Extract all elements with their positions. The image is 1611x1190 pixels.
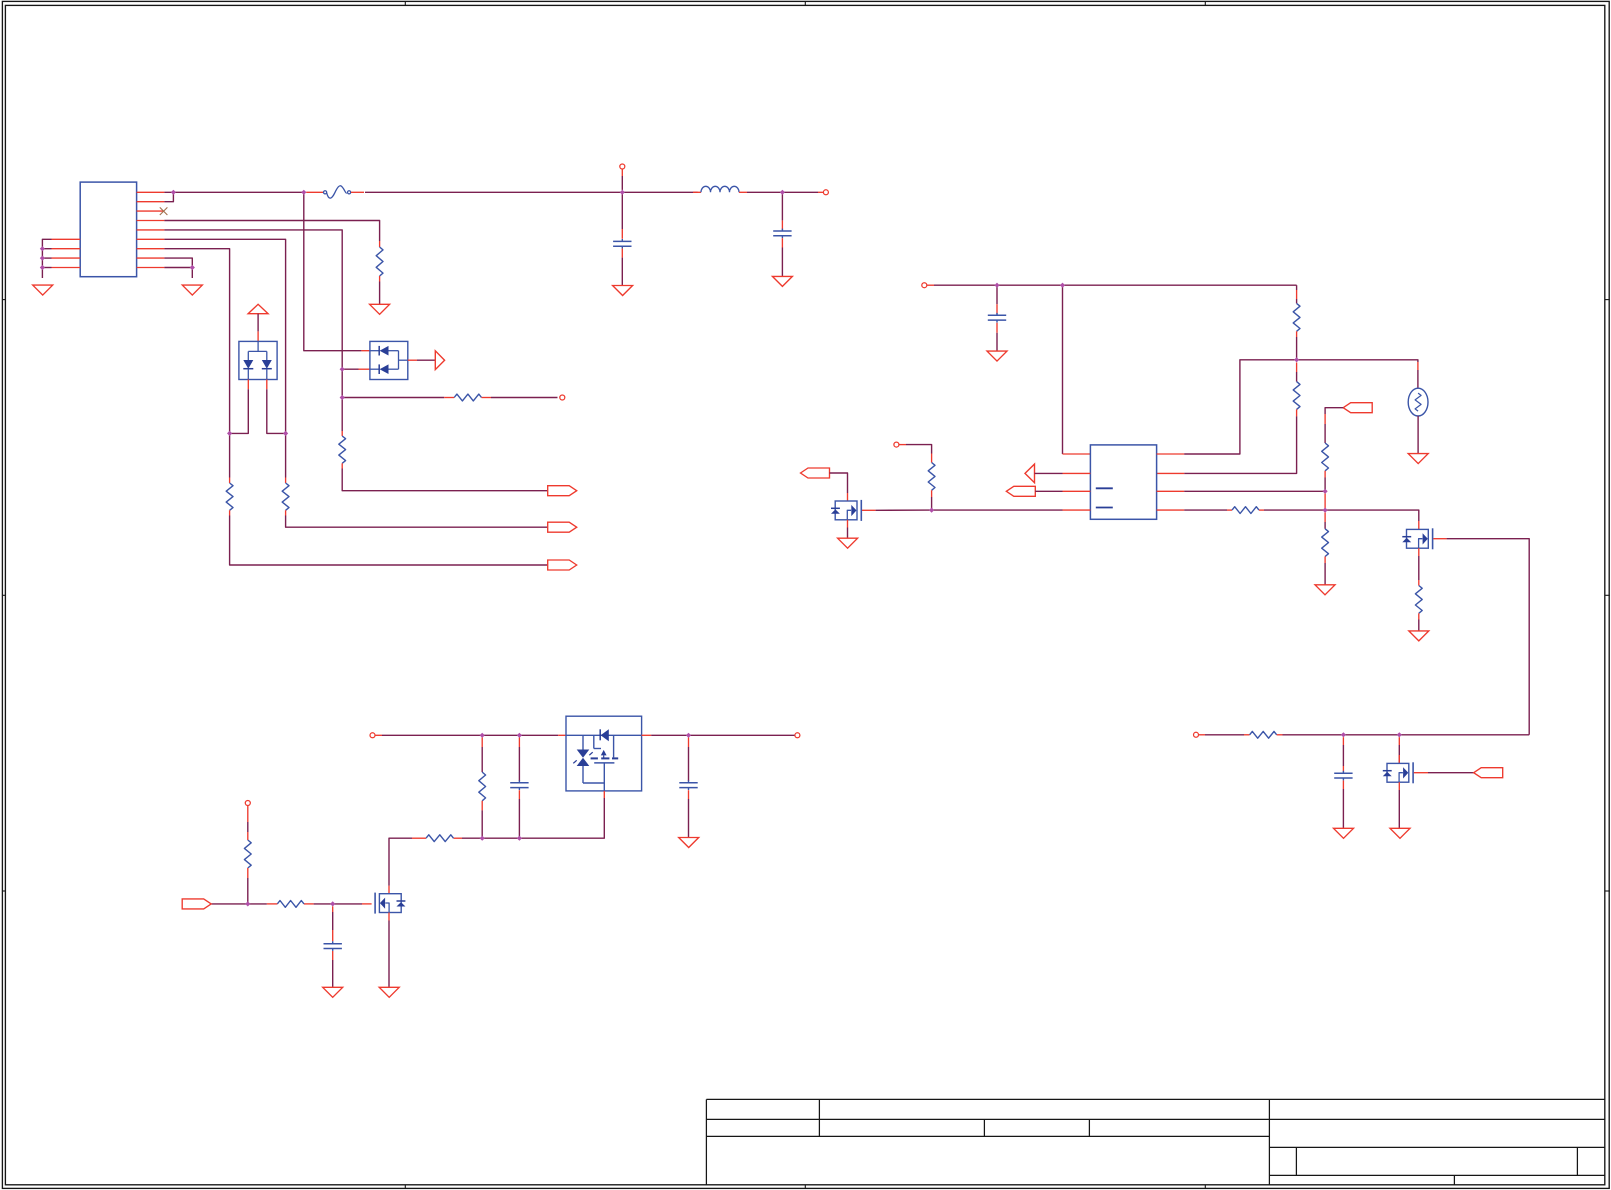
red stub R17 left <box>1244 734 1250 736</box>
ground GND2 (J1 pins 8-9) <box>182 285 202 295</box>
connector J1 <box>80 182 136 277</box>
offpage tag T8 <box>1474 768 1503 778</box>
junction node Q <box>1341 732 1346 737</box>
offpage tag T2 <box>548 522 577 532</box>
red stub R16 bottom <box>247 868 249 878</box>
wire A2 to U1 <box>1035 472 1063 474</box>
wire to R6 <box>1296 299 1298 303</box>
red stub C6 mid <box>332 930 334 941</box>
wire node B to port P1 <box>621 176 623 190</box>
red stub R7 top <box>1296 363 1298 373</box>
junction pin6/diode D1b <box>283 431 288 436</box>
red stub R12 bottom <box>1418 613 1420 619</box>
wire to R7 <box>1296 372 1298 382</box>
wire R3 to tag row1 <box>342 469 548 491</box>
input arrow A2 <box>1025 464 1035 483</box>
resistor R8 <box>928 463 935 491</box>
red stub Q3 right <box>642 734 652 736</box>
wire pin6 to R4 <box>285 433 287 477</box>
red stub R10 left <box>1227 509 1232 511</box>
red stub L1 left <box>693 191 701 193</box>
wire Q4 gate to node O <box>333 903 362 905</box>
red stub R11 bottom <box>1324 557 1326 564</box>
resistor R10 <box>1232 507 1259 514</box>
red stub R13 bottom <box>481 801 483 811</box>
wire node F to lamp <box>1297 360 1418 362</box>
red stub Q3 left <box>558 734 566 736</box>
red stub R14 right <box>454 837 463 839</box>
IC U1 <box>1090 445 1156 519</box>
junction node R <box>1397 732 1402 737</box>
red stub port P1 <box>621 169 623 176</box>
junction node H <box>1323 489 1328 494</box>
junction pin7/diode D1a <box>227 431 232 436</box>
red stub R11 top <box>1324 513 1326 523</box>
wire to R9 <box>1324 424 1326 443</box>
port P7 <box>795 733 800 738</box>
ground GND13 (C6) <box>323 987 343 997</box>
wire R11 to ground <box>1324 563 1326 585</box>
red stub R6 top <box>1296 290 1298 299</box>
resistor R4 <box>282 483 289 510</box>
wire J1 pin6 column <box>164 239 285 433</box>
capacitor C6 <box>324 941 342 951</box>
wire pin7 to R5 <box>229 433 231 477</box>
capacitor C4 <box>510 780 528 790</box>
port P5 <box>894 442 899 447</box>
red stub R13 top <box>481 738 483 748</box>
fuse F1 <box>324 186 351 198</box>
wire pin5 to R3 <box>341 398 343 432</box>
wire pin5 to D2 lower pin <box>342 368 358 370</box>
red stub Q1 gate <box>862 509 876 511</box>
wire P5 to R8 <box>906 445 932 454</box>
wire lamp to ground <box>1417 416 1419 454</box>
red stub R7 bottom <box>1296 409 1298 416</box>
red stub C4 top <box>518 738 520 748</box>
wire node O to R15 <box>314 903 333 905</box>
wire R1 to ground <box>379 282 381 305</box>
red stub R8 top <box>931 454 933 463</box>
wire U1-R1 to node F <box>1184 360 1296 454</box>
wire to R11 <box>1324 522 1326 529</box>
wire R15 to node P <box>248 903 267 905</box>
wire R6 to node F <box>1296 337 1298 360</box>
wire J1 pin4 to R1 <box>164 221 379 242</box>
ground GND11 (C5) <box>679 838 699 848</box>
dual diode D2 <box>370 341 408 379</box>
red stub Q2 gate <box>1433 538 1446 540</box>
wire C5 to ground <box>688 799 690 837</box>
wire T6 to R9 <box>1325 408 1343 414</box>
wire VIN rail to fuse <box>164 191 303 193</box>
red stub Q5 gate <box>1414 772 1428 774</box>
red stub fuse left <box>306 191 323 193</box>
connector J1 pin stubs <box>52 192 165 267</box>
wire R4 to tag row2 <box>286 516 548 528</box>
offpage tag T5 <box>801 468 830 478</box>
red stub C1 top <box>621 229 623 239</box>
red stub R17 right <box>1277 734 1283 736</box>
ground GND12 (Q4) <box>379 987 399 997</box>
wire J1 pin7 column <box>164 249 229 434</box>
wire C6 to ground <box>332 960 334 987</box>
red stub Q4 gate <box>362 903 372 905</box>
capacitor C3 <box>988 313 1006 333</box>
red stub R15 left <box>267 903 278 905</box>
red stub R1 bottom <box>379 276 381 282</box>
red stub R5 bottom <box>229 510 231 515</box>
resistor R15 <box>277 901 304 908</box>
red stub P4 <box>927 284 934 286</box>
wire R12 to ground <box>1418 620 1420 631</box>
wire D1a to pin7 column <box>230 389 249 433</box>
red stub Q3 bottom <box>603 791 605 798</box>
wire J1 pin L2 seg <box>42 248 51 250</box>
wire R14 to Q4 drain <box>389 838 412 886</box>
wire node K to C4 <box>518 747 520 781</box>
wire Q5 source to ground <box>1398 790 1400 828</box>
wire T5 to Q1 drain <box>830 473 848 493</box>
red stub R2 right <box>482 397 492 399</box>
red stub lamp top <box>1417 362 1419 370</box>
wire J1 pin9 to ground <box>164 268 192 279</box>
red stub C1 bottom <box>621 249 623 258</box>
resistor R13 <box>479 772 486 801</box>
wire J1 pin5 column <box>164 230 342 369</box>
red stub Q4 drain <box>388 886 390 894</box>
red stub C7 top <box>1342 737 1344 745</box>
red stub U1-R3 <box>1157 490 1185 492</box>
no-connect X on J1 pin 3 <box>160 207 168 215</box>
transistor Q2 <box>1402 528 1432 549</box>
wire P8 to R16 <box>247 822 249 832</box>
ground GND5 (R1) <box>370 304 390 314</box>
wire R13 to lower rail <box>481 810 483 838</box>
wire node R to Q2 gate line <box>1399 734 1529 736</box>
wire mid rail <box>382 734 558 736</box>
red stub C6 top <box>332 906 334 912</box>
junction node J <box>480 733 485 738</box>
wire lower rail <box>482 837 519 839</box>
wire R5 to tag row3 <box>230 516 548 566</box>
resistor R9 <box>1322 443 1329 471</box>
red stub port P2 <box>818 191 823 193</box>
red stub R8 bottom <box>931 490 933 497</box>
red stub U1-L4 <box>1063 509 1091 511</box>
ground GND15 (Q5) <box>1390 828 1410 838</box>
wire J1 pin L3 seg <box>42 257 51 259</box>
red stub C5 top <box>688 738 690 748</box>
junction node I <box>1323 508 1328 513</box>
capacitor C2 <box>773 229 791 239</box>
wire C1 to ground <box>621 258 623 286</box>
resistor R5 <box>226 483 233 510</box>
red stub C5 bottom <box>688 790 690 799</box>
red stub U1-L2 <box>1063 472 1091 474</box>
transistor Q5 <box>1383 762 1413 783</box>
red stub C7 mid <box>1342 766 1344 772</box>
junction node M <box>480 836 485 841</box>
wire J1 pin2 jog <box>164 192 173 201</box>
capacitor C5 <box>679 780 697 790</box>
wire node E to U1 pin1 <box>1062 285 1064 454</box>
wire node C to port P2 <box>782 191 818 193</box>
junction J1-L4 <box>40 265 45 270</box>
ground GND3 (C1) <box>613 286 633 296</box>
ground GND7 (lamp) <box>1408 454 1428 464</box>
dual diode D1 <box>239 341 277 379</box>
port P6 <box>370 733 375 738</box>
wire pin5 row to R2 <box>342 397 444 399</box>
red stub Q5 drain2 <box>1398 755 1400 763</box>
wire J1 pin L4 seg <box>42 267 51 269</box>
wire C3 to ground <box>996 333 998 351</box>
junction node N <box>517 836 522 841</box>
junction pin5/R2 row <box>340 395 345 400</box>
red stub C6 bottom <box>332 951 334 960</box>
wire Q3 to node L <box>651 734 797 736</box>
red stub Q2 drain <box>1418 521 1420 529</box>
red stub R16 top <box>247 832 249 840</box>
wire R8 to node G <box>931 497 933 510</box>
red stub U1-R4 <box>1157 509 1185 511</box>
ground GND8 (Q1) <box>838 538 858 548</box>
red stub R5 top <box>229 478 231 484</box>
port P8 <box>245 801 250 806</box>
resistor R17 <box>1250 731 1277 738</box>
wire R7 to U1 pin R2 <box>1184 416 1296 473</box>
wire R10 to node I <box>1264 509 1325 511</box>
wire VCC to D1 <box>257 314 259 332</box>
junction J1-L3 <box>40 256 45 261</box>
wire node R to Q5 <box>1398 745 1400 763</box>
wire node P to tag <box>211 903 248 905</box>
wire node C to C2 <box>781 192 783 220</box>
red stub R9 top <box>1324 414 1326 424</box>
red stub C2 top <box>781 220 783 229</box>
wire C4 to lower rail <box>518 799 520 838</box>
transistor Q4 <box>375 893 405 914</box>
wire node I to Q2 drain <box>1325 510 1419 521</box>
red stub U1-R1 <box>1157 453 1185 455</box>
junction pin5/diode D2 <box>340 367 345 372</box>
red stub Q4 source <box>388 913 390 921</box>
red stub D2 right <box>408 359 417 361</box>
red stub D2 top-left <box>361 350 370 352</box>
wire D1b to pin6 column <box>267 389 286 433</box>
red stub D1 bottom right <box>266 380 268 390</box>
junction node G <box>929 508 934 513</box>
red stub D1 top <box>257 331 259 341</box>
red stub R3 bottom <box>341 463 343 468</box>
red stub C4 bottom <box>518 790 520 799</box>
wire L1 to node C <box>747 191 782 193</box>
wire Q3 source down <box>519 798 604 838</box>
wire U1-R4 to R10 <box>1184 509 1227 511</box>
resistor R3 <box>339 436 346 463</box>
inductor L1 <box>701 186 739 192</box>
port P1 <box>620 164 625 169</box>
red stub Q1 source <box>847 520 849 528</box>
wire Q1 source to ground <box>847 528 849 539</box>
wire Q5 gate to tag <box>1428 772 1474 774</box>
junction node F <box>1294 357 1299 362</box>
wire R2 to port P3 <box>491 397 558 399</box>
junction node D <box>994 283 999 288</box>
junction node K <box>517 733 522 738</box>
offpage tag T6 <box>1343 403 1372 413</box>
wire C7 to ground <box>1342 789 1344 828</box>
red stub C7 bottom <box>1342 781 1344 790</box>
red stub R2 left <box>444 397 454 399</box>
wire to lamp <box>1417 370 1419 388</box>
wire R9 to node H <box>1324 478 1326 492</box>
red stub R12 top <box>1418 580 1420 586</box>
wire R16 to node P <box>247 878 249 904</box>
red stub P8 <box>247 806 249 823</box>
port P4 <box>922 283 927 288</box>
red stub P9 <box>1199 734 1206 736</box>
resistor R7 <box>1293 382 1300 410</box>
wire node Q to node R <box>1343 734 1399 736</box>
junction J1 pin8/9 <box>190 265 195 270</box>
lamp DS1 <box>1408 388 1428 416</box>
red stub node H to node I <box>1324 494 1326 509</box>
red stub R10 right <box>1259 509 1264 511</box>
junction VIN node A <box>301 190 306 195</box>
resistor R14 <box>426 835 454 842</box>
resistor R1 <box>376 247 383 276</box>
offpage tag T1 <box>548 486 577 496</box>
red stub L1 right <box>739 191 747 193</box>
wire Q1 gate to node G <box>876 509 932 511</box>
wire D2 to arrow <box>417 359 435 361</box>
wire P9 to R17 <box>1205 734 1244 736</box>
capacitor C7 <box>1334 771 1352 781</box>
red stub R4 bottom <box>285 510 287 515</box>
ground GND10 (R12) <box>1409 631 1429 641</box>
wire C2 to ground <box>781 248 783 277</box>
junction node L <box>686 733 691 738</box>
ground GND1 (J1 left) <box>33 285 53 295</box>
junction node E <box>1060 283 1065 288</box>
red stub R1 top <box>379 241 381 247</box>
power mosfet pack Q3 <box>566 716 642 791</box>
junction node C <box>780 190 785 195</box>
ground GND14 (C7) <box>1334 828 1354 838</box>
wire node O to C6 <box>332 912 334 930</box>
wire node J to R13 <box>481 747 483 772</box>
port P2 <box>823 190 828 195</box>
red stub C3 top <box>996 304 998 314</box>
offpage tag T3 <box>548 560 577 570</box>
resistor R6 <box>1293 303 1300 331</box>
wire R17 to node Q <box>1283 734 1344 736</box>
red stub Q1 drain <box>847 493 849 501</box>
resistor R12 <box>1415 586 1422 614</box>
wire node A to D2 <box>304 192 362 350</box>
red stub D2 bottom-left <box>359 368 370 370</box>
junction node B <box>620 190 625 195</box>
wire T4 to U1 <box>1035 490 1062 492</box>
offpage tag T4 <box>1006 486 1035 496</box>
red stub U1-L3 <box>1063 490 1091 492</box>
red stub P6 <box>375 734 382 736</box>
red stub U1-R2 <box>1157 472 1185 474</box>
ground GND4 (C2) <box>772 276 792 286</box>
red stub Q5 drain <box>1398 737 1400 745</box>
port P3 <box>560 395 565 400</box>
ground GND9 (R11) <box>1315 585 1335 595</box>
wire fuse to node B <box>365 191 622 193</box>
resistor R11 <box>1322 529 1329 557</box>
resistor R16 <box>244 840 251 868</box>
wire Q4 source to ground <box>388 921 390 988</box>
wire J1 left pins to ground <box>42 239 51 278</box>
wire U1-R3 to node H <box>1184 490 1325 492</box>
wire node B to C1 <box>621 192 623 229</box>
port P9 <box>1194 732 1199 737</box>
wire node B to L1 <box>622 191 697 193</box>
wire node Q to C7 <box>1342 745 1344 766</box>
red stub Q5 source <box>1398 782 1400 790</box>
red stub R3 top <box>341 431 343 436</box>
red stub R4 top <box>285 478 287 484</box>
wire lower rail left <box>462 837 482 839</box>
junction node P <box>245 901 250 906</box>
red stub R9 bottom <box>1324 471 1326 478</box>
junction J1-L2 <box>40 246 45 251</box>
transistor Q1 <box>831 500 861 521</box>
wire P4 rail <box>934 284 1297 286</box>
wire node pin5 down <box>341 369 343 397</box>
red stub P5 <box>899 444 906 446</box>
wire node L to C5 <box>688 747 690 781</box>
red stub fuse right <box>351 191 364 193</box>
red stub Q2 source <box>1418 548 1420 556</box>
ground GND6 (C3) <box>987 351 1007 361</box>
wire J1 pin8 jog <box>164 258 192 267</box>
power arrow VCC <box>248 304 268 313</box>
red stub C2 bottom <box>781 238 783 247</box>
junction pin1/pin2 <box>171 190 176 195</box>
wire rail corner down <box>1296 285 1298 290</box>
red stub U1-L1 <box>1063 453 1091 455</box>
red stub R14 left <box>412 837 426 839</box>
input tag T7 <box>182 899 211 909</box>
capacitor C1 <box>613 239 631 249</box>
wire node D to C3 <box>996 285 998 304</box>
wire Q2 gate right down <box>1447 539 1530 735</box>
red stub R15 right <box>304 903 314 905</box>
wire Q2 source to R12 <box>1418 556 1420 580</box>
red stub D1 bottom left <box>247 380 249 390</box>
junction node O <box>330 901 335 906</box>
wire gate node to U1 pin L4 <box>932 509 1063 511</box>
title block <box>706 1099 1604 1184</box>
output arrow A1 <box>435 351 444 370</box>
resistor R2 <box>454 394 481 401</box>
red stub R6 bottom <box>1296 331 1298 337</box>
